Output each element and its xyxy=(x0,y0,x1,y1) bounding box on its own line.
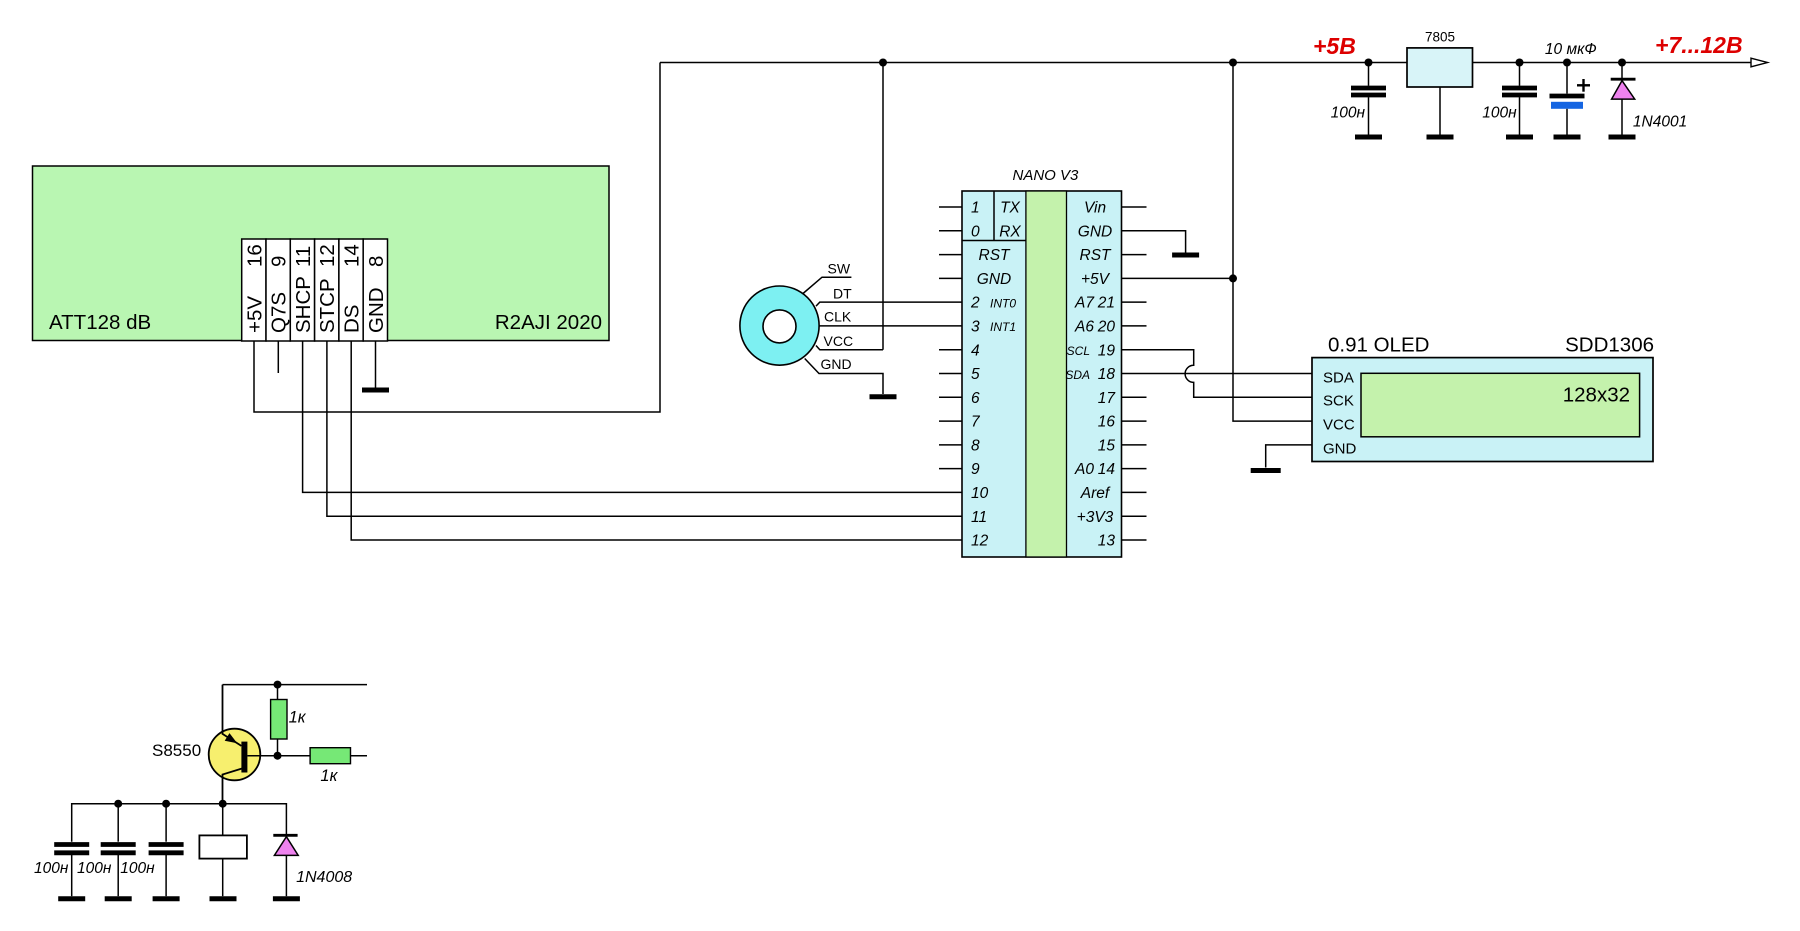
wire pin Q7S stub xyxy=(277,341,279,373)
wire R1 top lead xyxy=(277,685,279,700)
svg-text:15: 15 xyxy=(1098,438,1116,455)
wire 7805 GND stem xyxy=(1439,87,1441,135)
svg-text:8: 8 xyxy=(365,256,388,267)
svg-text:14: 14 xyxy=(341,244,364,267)
Q1 emitter arrow xyxy=(225,733,238,743)
regulator U2 7805 xyxy=(1407,48,1473,87)
wire encoder GND xyxy=(805,359,883,395)
wire pin DS to NANO 12 xyxy=(351,341,962,540)
svg-text:19: 19 xyxy=(1098,342,1116,359)
svg-text:1к: 1к xyxy=(289,709,307,727)
wire pin STCP to NANO 11 xyxy=(327,341,962,516)
svg-text:20: 20 xyxy=(1097,319,1116,336)
wire NANO right stub row 5 xyxy=(1122,325,1147,327)
svg-text:11: 11 xyxy=(971,509,987,526)
wire NANO right stub row 9 xyxy=(1122,420,1147,422)
svg-text:13: 13 xyxy=(1098,533,1116,550)
svg-text:A7: A7 xyxy=(1074,295,1095,312)
svg-text:A6: A6 xyxy=(1074,319,1094,336)
svg-text:INT0: INT0 xyxy=(990,296,1016,310)
svg-text:10 мкФ: 10 мкФ xyxy=(1545,41,1597,58)
wire NANO right stub row 14 xyxy=(1122,539,1147,541)
svg-text:14: 14 xyxy=(1098,461,1116,478)
ground xyxy=(1609,135,1636,140)
wire NANO left stub row 0 xyxy=(939,206,962,208)
wire NANO right stub row 2 xyxy=(1122,254,1147,256)
svg-text:1к: 1к xyxy=(320,767,338,785)
capacitor C4 100н xyxy=(54,842,89,847)
wire NANO right stub row 8 xyxy=(1122,396,1147,398)
svg-text:DT: DT xyxy=(833,285,852,301)
wire NANO +5V to rail riser xyxy=(1122,277,1234,279)
ground xyxy=(1251,468,1281,473)
wire NANO left stub row 2 xyxy=(939,254,962,256)
ground xyxy=(1554,135,1581,140)
OLED display body SDD1306 xyxy=(1312,358,1653,462)
OLED screen 128x32 xyxy=(1361,373,1640,437)
junction bus/C6 xyxy=(162,800,170,808)
wire NANO right stub row 0 xyxy=(1122,206,1147,208)
svg-text:GND: GND xyxy=(1323,440,1357,457)
svg-text:RST: RST xyxy=(979,247,1012,264)
connector output arrow xyxy=(1751,58,1768,67)
ground xyxy=(870,394,897,399)
wire NANO left stub row 11 xyxy=(939,468,962,470)
ground xyxy=(58,896,85,901)
wire NANO left stub row 9 xyxy=(939,420,962,422)
svg-text:ATT128 dB: ATT128 dB xyxy=(49,311,151,334)
wire relay box bottom lead xyxy=(222,859,224,897)
svg-text:7: 7 xyxy=(971,414,981,431)
svg-text:+5V: +5V xyxy=(1081,271,1111,288)
svg-text:Aref: Aref xyxy=(1080,485,1111,502)
wire pin GND 8 xyxy=(375,341,377,388)
svg-text:VCC: VCC xyxy=(1323,417,1355,434)
svg-text:100н: 100н xyxy=(34,860,69,877)
NANO center stripe xyxy=(1026,191,1067,557)
svg-text:9: 9 xyxy=(971,461,980,478)
wire NANO left stub row 8 xyxy=(939,396,962,398)
svg-text:12: 12 xyxy=(971,533,989,550)
ground xyxy=(1427,135,1454,140)
svg-text:0: 0 xyxy=(971,223,980,240)
label + polarity xyxy=(1577,79,1590,92)
junction rail/C2 xyxy=(1516,59,1524,67)
wire +5V top rail xyxy=(660,62,1751,64)
svg-text:21: 21 xyxy=(1097,295,1115,312)
MCU U1 NANO V3 body xyxy=(962,191,1122,557)
wire encoder SW xyxy=(803,277,851,293)
svg-text:16: 16 xyxy=(243,244,266,267)
wire pin SHCP to NANO 10 xyxy=(303,341,962,492)
ground xyxy=(105,896,132,901)
svg-text:INT1: INT1 xyxy=(990,320,1016,334)
wire NANO left stub row 1 xyxy=(939,230,962,232)
wire NANO left stub row 3 xyxy=(939,277,962,279)
capacitor C5 100н xyxy=(117,804,119,842)
rotary encoder body xyxy=(740,286,819,365)
diode D1 1N4001 xyxy=(1621,63,1623,81)
wire emitter top rail xyxy=(223,684,368,686)
svg-text:128x32: 128x32 xyxy=(1563,384,1630,407)
wire encoder VCC xyxy=(816,346,883,350)
svg-text:SCK: SCK xyxy=(1323,393,1354,410)
svg-text:1: 1 xyxy=(971,200,980,217)
Q1 emitter lead xyxy=(223,685,242,746)
svg-text:9: 9 xyxy=(268,256,291,267)
svg-text:GND: GND xyxy=(821,356,852,372)
svg-text:18: 18 xyxy=(1098,366,1116,383)
capacitor C2 100н xyxy=(1519,63,1521,86)
wire NANO SDA18 to OLED SDA xyxy=(1122,373,1313,375)
svg-text:8: 8 xyxy=(971,438,980,455)
svg-text:STCP: STCP xyxy=(316,278,339,333)
svg-text:+5В: +5В xyxy=(1313,33,1356,59)
connector pin header ATT128 xyxy=(242,239,388,341)
svg-text:11: 11 xyxy=(292,246,315,267)
wire NANO left stub row 7 xyxy=(939,373,962,375)
svg-text:SCL: SCL xyxy=(1067,344,1090,358)
wire ATT +5V riser to rail xyxy=(254,63,660,413)
svg-text:1N4008: 1N4008 xyxy=(296,869,352,886)
wire R2 right lead xyxy=(351,755,368,757)
wire NANO right stub row 4 xyxy=(1122,301,1147,303)
diode D2 1N4008 xyxy=(273,834,297,837)
svg-text:6: 6 xyxy=(971,390,980,407)
relay/crystal box xyxy=(199,835,247,858)
svg-text:DS: DS xyxy=(341,305,364,333)
svg-text:CLK: CLK xyxy=(824,309,852,325)
encoder shaft hole xyxy=(763,310,796,343)
svg-text:3: 3 xyxy=(971,319,980,336)
ground xyxy=(1506,135,1533,140)
junction rail/C1 xyxy=(1365,59,1373,67)
wire bottom GND bus xyxy=(72,804,287,842)
junction base/R1/R2 xyxy=(274,752,282,760)
svg-text:100н: 100н xyxy=(120,860,155,877)
capacitor C1 100н xyxy=(1368,63,1370,86)
junction bus/collector xyxy=(219,800,227,808)
svg-text:RX: RX xyxy=(999,223,1021,240)
ground xyxy=(1355,135,1382,140)
svg-text:GND: GND xyxy=(977,271,1011,288)
wire NANO left stub row 6 xyxy=(939,349,962,351)
wire encoder CLK to NANO 3 xyxy=(819,325,962,327)
ground xyxy=(1172,253,1199,258)
svg-text:GND: GND xyxy=(1078,223,1112,240)
wire +5V rail to encoder VCC xyxy=(882,63,884,350)
svg-text:R2AJI 2020: R2AJI 2020 xyxy=(495,311,602,334)
wire relay box top lead xyxy=(222,804,224,836)
svg-text:100н: 100н xyxy=(1331,105,1366,122)
wire NANO right stub row 13 xyxy=(1122,515,1147,517)
svg-text:+3V3: +3V3 xyxy=(1077,509,1114,526)
wire NANO GND right to ground xyxy=(1122,231,1186,253)
svg-text:0.91 OLED: 0.91 OLED xyxy=(1328,334,1429,357)
junction rail/OLED VCC xyxy=(1229,59,1237,67)
ground xyxy=(153,896,180,901)
transistor Q1 S8550 body xyxy=(209,729,261,781)
svg-text:SW: SW xyxy=(828,261,851,277)
NANO TX/RX sub-box xyxy=(993,191,995,241)
resistor R2 1к horizontal xyxy=(310,748,350,764)
svg-text:A0: A0 xyxy=(1074,461,1094,478)
Q1 base bar xyxy=(241,742,247,773)
svg-text:SDD1306: SDD1306 xyxy=(1565,334,1654,357)
ground xyxy=(273,896,300,901)
svg-text:7805: 7805 xyxy=(1425,30,1455,45)
junction bus/C5 xyxy=(114,800,122,808)
svg-text:RST: RST xyxy=(1080,247,1113,264)
svg-text:Q7S: Q7S xyxy=(268,292,291,333)
junction rail/D1 xyxy=(1618,59,1626,67)
svg-text:100н: 100н xyxy=(77,860,112,877)
capacitor C6 100н xyxy=(165,804,167,842)
wire NANO SCL19 to OLED SCK with hop xyxy=(1122,350,1313,398)
svg-text:+7...12В: +7...12В xyxy=(1655,32,1743,58)
junction rail/encoder VCC xyxy=(879,59,887,67)
svg-text:VCC: VCC xyxy=(824,333,854,349)
svg-text:SDA: SDA xyxy=(1323,369,1354,386)
wire NANO right stub row 11 xyxy=(1122,468,1147,470)
capacitor C3 10 мкФ electrolytic xyxy=(1566,63,1568,94)
svg-text:GND: GND xyxy=(365,287,388,333)
svg-text:16: 16 xyxy=(1098,414,1116,431)
svg-text:NANO V3: NANO V3 xyxy=(1013,167,1080,184)
svg-text:TX: TX xyxy=(1000,200,1020,217)
wire NANO right stub row 10 xyxy=(1122,444,1147,446)
wire NANO right stub row 12 xyxy=(1122,491,1147,493)
svg-text:12: 12 xyxy=(316,244,339,267)
svg-text:+5V: +5V xyxy=(243,296,266,333)
junction R1 top xyxy=(274,681,282,689)
svg-text:5: 5 xyxy=(971,366,980,383)
wire OLED GND to ground xyxy=(1266,445,1312,468)
junction +5V xyxy=(1229,274,1237,282)
Q1 collector lead xyxy=(223,769,243,803)
svg-text:10: 10 xyxy=(971,485,989,502)
ground xyxy=(210,896,237,901)
IC ATT128 attenuator body xyxy=(33,166,610,341)
wire rail to OLED VCC xyxy=(1233,63,1312,422)
junction rail/C3 xyxy=(1563,59,1571,67)
svg-text:100н: 100н xyxy=(1482,105,1517,122)
ground xyxy=(362,388,389,393)
wire encoder DT to NANO 2 xyxy=(816,302,962,306)
svg-text:2: 2 xyxy=(970,295,980,312)
wire NANO left stub row 10 xyxy=(939,444,962,446)
svg-text:S8550: S8550 xyxy=(152,741,201,760)
wire base net xyxy=(247,755,310,757)
svg-text:1N4001: 1N4001 xyxy=(1633,113,1687,130)
svg-text:SHCP: SHCP xyxy=(292,276,315,333)
resistor R1 1к vertical xyxy=(271,700,287,740)
svg-text:SDA: SDA xyxy=(1065,368,1090,382)
svg-text:4: 4 xyxy=(971,342,980,359)
svg-text:17: 17 xyxy=(1098,390,1117,407)
svg-text:Vin: Vin xyxy=(1084,200,1106,217)
wire R1 bottom lead xyxy=(277,739,279,756)
